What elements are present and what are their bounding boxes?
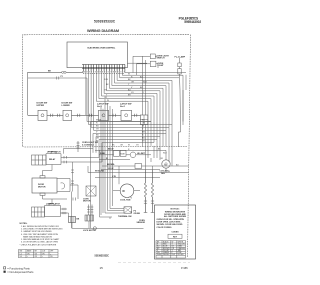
svg-text:No.1: No.1 (97, 106, 103, 108)
svg-text:W: W (128, 144, 130, 146)
circle on row y154.8 (130, 152, 136, 158)
svg-text:SAME GAUGE AND INSULATION: SAME GAUGE AND INSULATION (23, 235, 52, 238)
wire above CN3 (51, 199, 53, 204)
left table cell text (20, 250, 54, 258)
svg-text:LIGHT: LIGHT (158, 65, 165, 67)
svg-text:BK MDL: BK MDL (107, 164, 116, 166)
wire row labels (96, 120, 146, 143)
svg-text:5. SEE MINI MANUAL FOR SWITCH: 5. SEE MINI MANUAL FOR SWITCH CHART (21, 238, 60, 241)
M1 pins and plugs (43, 185, 79, 228)
mini box around code (168, 234, 182, 238)
svg-text:= Functioning Parts: = Functioning Parts (7, 266, 30, 270)
svg-text:W: W (96, 141, 98, 143)
blower motor M1 box (32, 178, 57, 193)
svg-text:OR-BK: OR-BK (134, 213, 141, 215)
svg-text:COOL FAN: COOL FAN (120, 199, 131, 202)
svg-text:3-4: 3-4 (20, 256, 22, 258)
svg-text:* CHECK POLARITY AT OUTLET BEF: * CHECK POLARITY AT OUTLET BEFORE (20, 243, 57, 246)
svg-text:4. USE ONLY REPLACEMENT WIRE W: 4. USE ONLY REPLACEMENT WIRE WITH (21, 233, 59, 236)
faint fold line (118, 262, 190, 264)
svg-text:15: 15 (100, 266, 104, 270)
svg-text:5303935333C: 5303935333C (95, 255, 110, 257)
svg-text:MOTOR: MOTOR (83, 201, 91, 203)
svg-text:RD-WH: RD-WH (178, 254, 185, 256)
svg-text:FAN: FAN (161, 172, 165, 175)
element wires continue (146, 137, 167, 173)
svg-text:NOTICE:: NOTICE: (171, 209, 180, 211)
interlock plug box (69, 217, 76, 223)
svg-text:DOOR OPEN. LATCH SWS -: DOOR OPEN. LATCH SWS - (157, 221, 182, 224)
lower wire rows (91, 122, 167, 229)
svg-text:W N LINE: W N LINE (95, 171, 105, 173)
row y159.5 wire (99, 159, 130, 161)
second wire from left edge (28, 77, 87, 122)
svg-text:CODES: CODES (171, 231, 179, 233)
link CN2 to M1 (43, 165, 53, 176)
svg-text:6. DOOR SHOWN CLOSED, LATCH OP: 6. DOOR SHOWN CLOSED, LATCH OPEN (21, 241, 58, 244)
svg-text:No.2: No.2 (120, 106, 126, 108)
color table text rows (157, 240, 186, 256)
left connector assembly CN3 (32, 204, 61, 218)
motor M2 circle (120, 184, 134, 198)
plug pair between switches (78, 114, 92, 117)
svg-text:THERMAL SW: THERMAL SW (118, 215, 132, 218)
row y172 wire (88, 166, 189, 173)
svg-text:LOCK MOTOR: LOCK MOTOR (83, 230, 97, 232)
mid vertical x72.5 with plugs (71, 162, 74, 192)
M1 side sub-box (57, 179, 70, 192)
door switch S2 box (63, 110, 72, 120)
svg-text:W-R: W-R (143, 82, 147, 84)
motor M2 feed vertical (118, 166, 120, 184)
door switch S1 box (38, 110, 47, 120)
lock motor element (85, 205, 94, 222)
CN2 pins and plugs (61, 156, 102, 163)
extra vertical x101 (101, 105, 103, 215)
svg-text:LOWER LATCH: LOWER LATCH (46, 203, 60, 206)
bottom wire row y228 with junction circle (72, 221, 144, 228)
svg-text:1-2: 1-2 (20, 253, 22, 255)
svg-text:COLOR CODING: COLOR CODING (157, 227, 172, 229)
svg-text:& CONSOLE: & CONSOLE (82, 144, 95, 146)
component row y156: terminal pair (114, 151, 120, 157)
wire up from CN2 (64, 149, 94, 154)
wires joining light boxes to bus (133, 56, 158, 75)
oven light switch box (upper small) (150, 54, 155, 59)
plug J1 circle pair on top-left wire (62, 71, 64, 73)
row y150 wire (95, 149, 166, 151)
oven light box (lower small) (150, 61, 156, 66)
light circuit verticals x142.5/145.5 (143, 56, 146, 162)
svg-text:BK-W: BK-W (108, 149, 114, 151)
row y162-168 component (135, 164, 142, 169)
svg-text:W: W (107, 100, 109, 102)
connector bar crossing boundary at x 78 (77, 141, 80, 152)
svg-text:R-BK: R-BK (100, 153, 106, 155)
row y177 wire (95, 177, 160, 179)
wire fan code labels (104, 74, 147, 102)
row y154.8 wires and labels (99, 154, 151, 156)
svg-text:5995443002: 5995443002 (184, 20, 201, 24)
wire fan from EOC pins to right bus (96, 71, 186, 166)
svg-text:HI-LIMIT: HI-LIMIT (137, 153, 146, 155)
svg-text:SWITCH: SWITCH (157, 58, 165, 60)
probe plug ticks (144, 201, 155, 213)
svg-text:LOWER: LOWER (62, 105, 71, 107)
wire from EOC pin left to door switches (28, 72, 84, 115)
svg-text:3. CABINET MUST BE GROUNDED: 3. CABINET MUST BE GROUNDED (21, 230, 52, 233)
plugs between latch switches (113, 114, 137, 117)
svg-text:W-R: W-R (163, 152, 167, 154)
svg-text:OFF: OFF (50, 251, 53, 253)
bottom wire row y219 (61, 213, 111, 219)
svg-text:WH-BLK: WH-BLK (163, 254, 170, 256)
svg-text:KEY: KEY (173, 236, 178, 238)
console/body boundary bottom dashed line (23, 146, 188, 147)
svg-text:PL-2 LAMP: PL-2 LAMP (175, 55, 186, 58)
svg-text:P1: P1 (61, 76, 63, 78)
svg-text:W: W (128, 74, 130, 76)
cooling fan motor circle (162, 160, 170, 168)
console boundary right edge (long vertical) (188, 35, 191, 258)
svg-text:M: M (123, 190, 125, 193)
svg-text:GY-W: GY-W (108, 168, 113, 170)
hood vertical wires right of lamp (183, 75, 186, 122)
svg-text:RELAY: RELAY (49, 158, 56, 161)
svg-text:ALL SWITCHES SHOWN: ALL SWITCHES SHOWN (164, 215, 187, 218)
svg-text:SENSOR: SENSOR (137, 222, 146, 224)
middle vertical bundle (100, 99, 125, 217)
svg-text:WIRING DIAGRAM: WIRING DIAGRAM (87, 29, 119, 33)
latch switch S4 box (99, 110, 109, 120)
left mini table (19, 250, 59, 258)
svg-text:R-W: R-W (104, 79, 108, 81)
svg-text:ELECTRONIC OVEN CONTROL: ELECTRONIC OVEN CONTROL (88, 48, 116, 50)
door switch row wire (28, 114, 141, 116)
electronic oven control EOC box (67, 42, 127, 68)
CN3 pins (61, 208, 68, 214)
svg-text:W: W (142, 126, 144, 128)
notice legend box (155, 205, 196, 259)
M1 bottom tab (40, 193, 45, 195)
oven lamp chain (178, 58, 181, 147)
console boundary (dashed) (23, 34, 190, 146)
plug on switch row after S1 (51, 114, 60, 117)
svg-text:P-985: P-985 (181, 267, 188, 270)
extra row label smudges (112, 144, 139, 155)
TOD thermostat box (124, 207, 132, 213)
svg-text:MOTOR: MOTOR (38, 187, 46, 189)
svg-text:NOTES:: NOTES: (20, 223, 28, 225)
color code table (156, 241, 186, 259)
convection fan box (86, 186, 96, 196)
right-side row labels (158, 149, 179, 173)
footer legend functioning parts (4, 266, 31, 270)
heating element R1 coil (145, 170, 147, 213)
svg-text:UPPER LATCH: UPPER LATCH (47, 150, 61, 153)
latch switch S5 box (121, 110, 132, 120)
svg-text:= Non-Expensed Parts: = Non-Expensed Parts (7, 270, 34, 274)
footer legend non-expensed parts (4, 270, 35, 274)
row y169.5 wire (101, 169, 160, 171)
wires from pins down-left (83, 63, 172, 130)
M1 top tab (40, 176, 45, 178)
svg-text:5303935333C: 5303935333C (94, 19, 116, 23)
svg-text:W-BK: W-BK (120, 154, 126, 156)
svg-text:V-W: V-W (112, 176, 116, 178)
EOC pin number smudge row (82, 72, 125, 74)
heating element R2 coil (152, 170, 154, 213)
EOC pin strip P1 (82, 65, 125, 72)
relay box right of switch row (140, 115, 148, 125)
svg-text:UPPER: UPPER (37, 105, 45, 107)
left connector assembly CN2 (32, 152, 62, 165)
svg-text:R-W: R-W (172, 254, 176, 256)
svg-text:1. ALL WIRING SHOWN WITH POWER: 1. ALL WIRING SHOWN WITH POWER OFF (21, 225, 60, 228)
